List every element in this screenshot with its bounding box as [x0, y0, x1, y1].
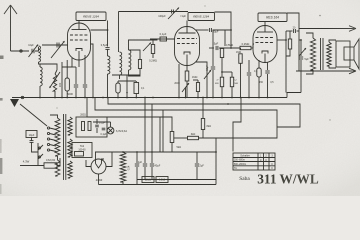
junction	[185, 97, 187, 99]
resistor 8k	[202, 98, 204, 119]
wire cathode drop	[78, 60, 80, 67]
wire right up	[215, 138, 217, 185]
junction	[61, 97, 63, 99]
wire	[66, 91, 68, 98]
junction	[178, 97, 180, 99]
potentiometer wiper	[126, 81, 128, 94]
dial lamp	[107, 127, 114, 134]
row rail	[137, 179, 216, 181]
wire right lead	[196, 62, 207, 98]
fuse	[44, 163, 57, 168]
junction	[227, 103, 229, 105]
capacitor	[84, 55, 86, 84]
wire top rail	[95, 151, 216, 153]
voltage selector	[47, 127, 49, 129]
capacitor 5000	[75, 67, 77, 84]
wire rect right	[106, 152, 112, 167]
transformer core	[63, 114, 65, 180]
resistor 200	[82, 122, 85, 131]
bottom rail	[99, 184, 217, 186]
wire	[57, 158, 60, 166]
wire	[39, 86, 41, 98]
junction	[54, 97, 56, 99]
cap 0,1b	[102, 127, 106, 129]
junction	[126, 97, 128, 99]
cap 40uF	[151, 104, 153, 163]
junction	[135, 97, 137, 99]
wire grid3 line	[209, 47, 214, 49]
tube U3 RES 164	[253, 26, 277, 63]
wire bracket	[62, 66, 76, 68]
cap 10uF box	[26, 131, 37, 138]
resistor box	[134, 83, 139, 94]
cap 4uF	[136, 152, 138, 163]
junction	[231, 97, 233, 99]
rectifier RGN1064	[91, 159, 106, 174]
wire top filter	[129, 39, 158, 44]
cap 4uF b	[144, 98, 146, 164]
wire	[118, 12, 120, 53]
cap trim	[143, 43, 151, 52]
tube U2 label	[188, 13, 215, 21]
junction	[152, 97, 154, 99]
junction	[221, 97, 223, 99]
box TA	[72, 143, 92, 158]
junction	[39, 97, 41, 99]
terminal	[20, 50, 22, 52]
wire left	[299, 39, 301, 41]
resistor 2M	[220, 77, 223, 87]
tube U1 RENS 1264	[68, 23, 91, 60]
edge smudge	[0, 158, 2, 174]
wire	[35, 47, 39, 51]
junction	[212, 97, 214, 99]
capacitor	[116, 83, 120, 93]
antenna trimmer C	[31, 49, 33, 53]
grid leak resistor	[151, 45, 154, 54]
junction	[248, 97, 250, 99]
output transformer primary	[310, 38, 315, 70]
speaker coil	[344, 47, 354, 60]
wire lamp top	[93, 121, 111, 123]
T1 secondary a	[68, 117, 72, 135]
resistor 0,2Mb	[230, 77, 233, 87]
wire x160	[159, 117, 161, 152]
choke field coil	[120, 152, 126, 182]
wire tube2 left lead	[178, 64, 180, 98]
junction	[122, 151, 124, 153]
speaker magnet	[336, 41, 350, 67]
resistor 200b	[88, 122, 91, 131]
wire N3	[233, 98, 241, 152]
resistor 6,8k	[156, 177, 168, 183]
ground	[10, 99, 19, 107]
transformer core	[320, 38, 322, 70]
cap diag	[204, 70, 211, 79]
wire bracket	[129, 50, 141, 53]
wire	[300, 70, 302, 93]
wire N2	[95, 98, 277, 139]
wire x163	[162, 110, 164, 152]
cap 0,1	[95, 124, 99, 126]
resistor 3k	[188, 136, 199, 139]
resistor 20k	[142, 177, 154, 183]
wire screen	[91, 44, 94, 98]
terminal	[21, 96, 23, 98]
wave-range table	[233, 153, 275, 170]
wire rect left	[86, 160, 91, 167]
T1 secondary b	[68, 139, 72, 157]
resistor var	[53, 74, 56, 91]
mains wire	[20, 165, 44, 167]
wire top speaker line	[287, 13, 299, 71]
resistor 1M	[240, 48, 242, 50]
coil L3	[108, 56, 110, 74]
junction	[102, 97, 104, 99]
junction	[84, 97, 86, 99]
junction	[144, 97, 146, 99]
wire top long	[119, 11, 189, 13]
resistor	[138, 60, 141, 69]
cathode resistor	[186, 66, 188, 72]
output transformer secondary	[327, 42, 331, 66]
cap 2uF	[196, 152, 198, 163]
edge smudge	[0, 139, 2, 153]
wire anode top	[91, 29, 108, 31]
tube U2 RENS 1264	[175, 27, 200, 66]
speck	[319, 15, 321, 17]
tuning capacitor C1	[42, 44, 68, 46]
resistor 0,5M	[221, 47, 223, 50]
pot arrow	[118, 80, 136, 82]
box resistors	[76, 117, 107, 137]
capacitor 100	[65, 78, 69, 91]
coil L2	[40, 67, 42, 86]
wire	[39, 62, 41, 67]
edge smudge	[0, 56, 4, 60]
junction	[92, 97, 94, 99]
antenna	[10, 5, 12, 51]
junction	[197, 97, 199, 99]
wire anode2	[215, 12, 232, 48]
mains switch	[37, 143, 39, 166]
wire grid stub	[62, 58, 72, 67]
coil L5	[129, 50, 131, 70]
junction	[258, 97, 260, 99]
transformer T1 primary	[55, 118, 60, 156]
junction	[267, 97, 269, 99]
wire	[61, 62, 63, 98]
junction	[202, 97, 204, 99]
wire N1	[108, 98, 300, 128]
junction	[215, 151, 217, 153]
junction	[206, 97, 208, 99]
cap 5uF	[300, 40, 302, 56]
edge smudge	[0, 184, 2, 194]
wire heater	[70, 146, 72, 148]
padder trimmer	[171, 10, 173, 14]
capacitor 50uF b	[212, 30, 214, 66]
junction	[66, 97, 68, 99]
cap	[267, 62, 269, 70]
resistor	[196, 83, 199, 92]
grid capacitor	[150, 38, 175, 40]
tube U3 label	[258, 13, 287, 22]
wire bottom speaker line	[296, 70, 352, 72]
selector linkage	[20, 104, 47, 126]
wire rect bottom	[98, 174, 100, 185]
tube U1 label	[76, 12, 106, 21]
wire antenna to input	[11, 50, 30, 52]
ground bus	[12, 97, 287, 99]
capacitor 0,1uF	[248, 60, 250, 72]
junction	[107, 97, 109, 99]
wire bus up	[287, 93, 301, 98]
switch arrow	[299, 48, 306, 56]
wire B+	[286, 49, 290, 56]
T1 secondary c	[68, 161, 72, 178]
wire N4	[87, 98, 160, 118]
wire grid3	[253, 44, 254, 48]
coil L1	[39, 46, 41, 62]
cathode bits	[258, 60, 260, 68]
junction	[75, 97, 77, 99]
resistor anode	[289, 31, 291, 39]
resistor 5k	[160, 117, 172, 132]
junction	[240, 97, 242, 99]
junction	[117, 97, 119, 99]
resistor 0,2M	[240, 46, 251, 49]
wire bracket	[222, 71, 232, 73]
wire anode3	[277, 39, 286, 41]
edge smudge	[0, 98, 3, 101]
coupling arrow	[40, 64, 57, 70]
wire volume bracket	[112, 74, 140, 76]
coil L4	[120, 52, 122, 75]
speaker cone	[354, 39, 359, 69]
